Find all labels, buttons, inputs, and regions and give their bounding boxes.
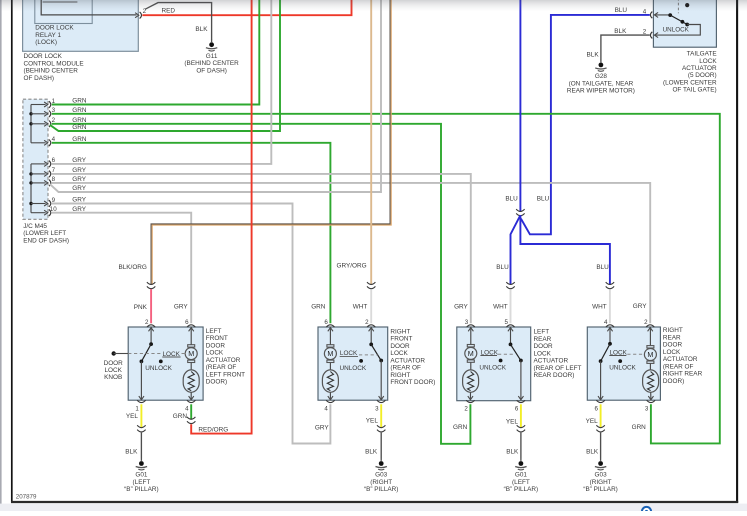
wire GRY branch up at x=379: [50, 0, 381, 192]
svg-text:(5 DOOR): (5 DOOR): [688, 72, 717, 79]
wire GRY pin7 to left rear actuator pin3: [52, 174, 471, 323]
svg-text:PNK: PNK: [134, 304, 148, 311]
svg-text:4: 4: [324, 405, 328, 412]
ground G01 (left B pillar, rear): [504, 459, 538, 494]
J/C M45 pin 10: [31, 206, 57, 216]
svg-text:(REAR OF: (REAR OF: [390, 365, 421, 372]
svg-text:(LEFT: (LEFT: [133, 479, 151, 486]
svg-text:RIGHT: RIGHT: [390, 372, 410, 379]
door lock control module label: [24, 53, 84, 82]
svg-text:GRN: GRN: [632, 424, 647, 431]
J/C M45 pin 6: [31, 157, 56, 167]
right front switch: [359, 327, 383, 399]
connector YEL to BLK: [377, 425, 385, 432]
svg-text:(REAR OF: (REAR OF: [663, 363, 694, 370]
svg-text:GRY: GRY: [72, 206, 86, 213]
svg-text:2: 2: [464, 405, 468, 412]
svg-text:OF TAIL GATE): OF TAIL GATE): [672, 87, 716, 94]
svg-text:ACTUATOR: ACTUATOR: [206, 357, 241, 364]
svg-text:YEL: YEL: [506, 418, 519, 425]
wire BLK to G03: [380, 433, 382, 459]
svg-text:GRN: GRN: [72, 124, 87, 131]
svg-text:GRN: GRN: [72, 107, 87, 114]
svg-text:G01: G01: [515, 472, 528, 479]
tailgate switch dashed line + node: [678, 0, 689, 13]
svg-text:(LEFT: (LEFT: [512, 479, 530, 486]
left front actuator label: [206, 328, 245, 386]
left rear actuator label: [534, 329, 582, 380]
svg-text:207879: 207879: [16, 493, 37, 500]
connector BLU to WHT (right rear): [606, 282, 614, 289]
svg-text:DOOR: DOOR: [663, 342, 683, 349]
right rear resistor: [643, 370, 659, 392]
svg-text:GRY/ORG: GRY/ORG: [337, 263, 367, 270]
svg-text:GRY: GRY: [454, 304, 468, 311]
svg-text:G01: G01: [135, 472, 148, 479]
wire BLK/ORG from top to left front actuator pin2: [151, 0, 391, 285]
svg-text:UNLOCK: UNLOCK: [340, 365, 367, 372]
svg-text:M: M: [327, 349, 333, 358]
svg-text:ACTUATOR: ACTUATOR: [390, 357, 425, 364]
left rear resistor: [463, 370, 479, 392]
ground G03 (right B pillar, rear): [583, 459, 617, 494]
wire YEL right rear pin6: [600, 404, 602, 428]
relay output wire to pin 2: [41, 0, 136, 15]
svg-text:RELAY 1: RELAY 1: [35, 32, 61, 39]
svg-text:CONTROL MODULE: CONTROL MODULE: [24, 60, 84, 67]
svg-text:(ON TAILGATE, NEAR: (ON TAILGATE, NEAR: [569, 80, 634, 87]
help icon bottom: [642, 507, 651, 516]
svg-text:LEFT: LEFT: [534, 329, 550, 336]
svg-text:GRN: GRN: [72, 98, 87, 105]
right front pin 4 (bottom): [324, 396, 334, 412]
svg-text:4: 4: [604, 319, 608, 326]
J/C M45 label: [23, 223, 69, 244]
svg-text:6: 6: [595, 405, 599, 412]
wire GRN branch up at x=280: [50, 0, 280, 131]
left rear pin 3 (top): [465, 319, 475, 331]
svg-text:OF DASH): OF DASH): [196, 67, 227, 74]
right rear pin 4 (top): [604, 319, 614, 331]
wire GRY pin9 to right front actuator pin4: [52, 204, 331, 444]
svg-text:M: M: [468, 349, 474, 358]
svg-text:3: 3: [375, 405, 379, 412]
right front actuator label: [390, 328, 435, 386]
svg-text:2: 2: [145, 319, 149, 326]
right rear pin 6 (bottom): [595, 396, 605, 412]
svg-text:GRN: GRN: [72, 136, 87, 143]
svg-text:TAILGATE: TAILGATE: [687, 51, 717, 58]
connector BLK/ORG to PNK: [147, 282, 155, 289]
left front pin 1 (bottom): [135, 396, 145, 412]
svg-text:ACTUATOR: ACTUATOR: [534, 358, 569, 365]
svg-text:WHT: WHT: [353, 304, 368, 311]
page right border: [736, 0, 738, 503]
J/C M45 pin 8: [31, 176, 56, 186]
svg-text:DOOR: DOOR: [206, 342, 226, 349]
wire YEL right front pin3: [380, 404, 382, 428]
wire GRY pin8 to right rear actuator pin2: [52, 183, 650, 323]
svg-text:3: 3: [645, 405, 649, 412]
svg-text:FRONT: FRONT: [390, 336, 412, 343]
connector GRY/ORG to WHT: [367, 282, 375, 289]
left rear pin 2 (bottom): [464, 396, 474, 412]
svg-text:BLK/ORG: BLK/ORG: [118, 264, 146, 271]
svg-text:GRY: GRY: [72, 185, 86, 192]
relay internal cut line: [43, 1, 78, 3]
svg-text:2: 2: [644, 319, 648, 326]
svg-text:UNLOCK: UNLOCK: [479, 365, 506, 372]
connector YEL to BLK: [137, 425, 145, 432]
connector BLU junction: [516, 209, 524, 216]
svg-text:GRN: GRN: [72, 117, 87, 124]
ground G03 (right B pillar): [364, 459, 398, 494]
svg-text:BLK: BLK: [614, 28, 627, 35]
left rear switch: [499, 327, 523, 399]
svg-text:BLK: BLK: [195, 26, 208, 33]
page left border: [1, 0, 12, 511]
right front door lock actuator box: [318, 327, 388, 400]
wire YEL left rear pin6: [520, 404, 522, 428]
tailgate switch: [654, 13, 700, 35]
svg-text:J/C M45: J/C M45: [23, 223, 47, 230]
wire RED/ORG loop up from left front pin4: [191, 0, 251, 434]
door lock control module box: [23, 0, 139, 51]
tailgate lock actuator box: [653, 0, 716, 47]
svg-text:BLK: BLK: [586, 449, 599, 456]
right front pin 3 (bottom): [375, 396, 385, 412]
svg-text:1: 1: [135, 405, 139, 412]
ground G01 (left B pillar): [124, 459, 158, 494]
right front resistor: [322, 370, 338, 392]
svg-text:GRY: GRY: [633, 303, 647, 310]
svg-text:(BEHIND CENTER: (BEHIND CENTER: [184, 60, 239, 67]
right rear pin 3 (bottom): [645, 396, 655, 412]
svg-text:UNLOCK: UNLOCK: [609, 364, 636, 371]
tailgate pin 4: [643, 8, 658, 18]
svg-text:WHT: WHT: [592, 304, 607, 311]
right rear pin 2 (top): [644, 319, 654, 331]
svg-text:(REAR OF LEFT: (REAR OF LEFT: [534, 365, 582, 372]
left front resistor: [183, 370, 199, 392]
wire BLK to G03: [600, 433, 602, 459]
door lock relay 1 label: [35, 25, 74, 46]
svg-text:GRY: GRY: [315, 424, 329, 431]
svg-text:GRN: GRN: [173, 413, 188, 420]
svg-text:DOOR): DOOR): [206, 379, 227, 386]
J/C M45 pin 3: [31, 107, 56, 117]
svg-text:BLU: BLU: [537, 196, 550, 203]
door lock relay 1 box: [35, 0, 92, 24]
right front motor M: [324, 327, 336, 370]
wire GRN left front pin4: [190, 404, 192, 419]
svg-text:DOOR: DOOR: [104, 360, 124, 367]
right rear door lock actuator box: [587, 327, 660, 400]
connector YEL to BLK: [596, 425, 604, 432]
wire GRN pin1 up at x=259: [52, 0, 259, 105]
svg-text:DOOR): DOOR): [663, 378, 684, 385]
wire GRY pin6 up at x=271: [52, 0, 271, 164]
tailgate pin 2: [643, 29, 658, 39]
door lock knob label: [104, 360, 124, 381]
wire PNK to pin2: [150, 289, 152, 323]
svg-text:GRY: GRY: [72, 176, 86, 183]
svg-text:6: 6: [324, 319, 328, 326]
svg-text:M: M: [188, 349, 194, 358]
svg-text:(RIGHT: (RIGHT: [370, 479, 392, 486]
left front motor M: [185, 327, 197, 370]
right rear motor M: [644, 327, 656, 370]
svg-text:GRN: GRN: [311, 304, 326, 311]
svg-text:OF DASH): OF DASH): [24, 75, 55, 82]
svg-text:4: 4: [185, 405, 189, 412]
wire BLU to right rear pin4: [520, 215, 610, 284]
svg-text:REAR WIPER MOTOR): REAR WIPER MOTOR): [567, 88, 635, 95]
J/C M45 pin 9: [31, 197, 56, 207]
svg-text:LOCK: LOCK: [390, 350, 408, 357]
wire GRY/ORG from top: [370, 0, 372, 285]
svg-text:2: 2: [365, 319, 369, 326]
svg-text:DOOR LOCK: DOOR LOCK: [35, 25, 74, 32]
door lock knob line: [112, 351, 161, 355]
wire GRN pin2 to left rear actuator pin2: [52, 124, 471, 444]
svg-text:G11: G11: [206, 53, 218, 60]
svg-text:END OF DASH): END OF DASH): [23, 237, 69, 244]
wire BLK to G01: [140, 433, 142, 459]
right rear actuator label: [663, 327, 703, 385]
page bottom border: [0, 502, 747, 511]
svg-text:DOOR LOCK: DOOR LOCK: [24, 53, 63, 60]
svg-text:3: 3: [465, 319, 469, 326]
svg-text:BLK: BLK: [365, 449, 378, 456]
svg-text:LOCK: LOCK: [206, 350, 224, 357]
svg-text:G03: G03: [595, 472, 608, 479]
right front pin 2 (top): [365, 319, 375, 331]
svg-text:BLU: BLU: [505, 196, 518, 203]
svg-text:REAR DOOR): REAR DOOR): [534, 372, 575, 379]
svg-text:“B” PILLAR): “B” PILLAR): [124, 486, 158, 493]
svg-text:BLK: BLK: [587, 51, 600, 58]
svg-text:KNOB: KNOB: [104, 374, 122, 381]
J/C grey bus: [30, 164, 32, 213]
wire YEL left front pin1: [140, 404, 142, 428]
svg-text:FRONT: FRONT: [206, 335, 228, 342]
svg-text:YEL: YEL: [126, 413, 139, 420]
ground G28: [567, 60, 635, 95]
left front switch: [140, 327, 163, 399]
svg-text:(RIGHT: (RIGHT: [590, 479, 612, 486]
svg-text:GRN: GRN: [453, 424, 468, 431]
J/C M45 pin 2: [31, 117, 56, 127]
svg-text:LOCK: LOCK: [699, 58, 717, 65]
svg-text:6: 6: [185, 319, 189, 326]
wire BLU to left rear pin5: [511, 215, 521, 284]
svg-text:UNLOCK: UNLOCK: [145, 365, 172, 372]
svg-text:“B” PILLAR): “B” PILLAR): [364, 486, 398, 493]
tailgate actuator label: [663, 51, 717, 94]
left rear door lock actuator box: [457, 327, 531, 401]
svg-text:M: M: [647, 350, 653, 359]
svg-text:YEL: YEL: [586, 418, 599, 425]
connector YEL to BLK: [517, 425, 525, 432]
J/C M45 junction connector box: [23, 99, 48, 219]
label LOCK (right rear): [609, 349, 644, 356]
svg-text:ACTUATOR: ACTUATOR: [682, 65, 717, 72]
J/C M45 pin 1: [31, 98, 56, 108]
svg-text:BLU: BLU: [596, 264, 609, 271]
svg-text:LOCK: LOCK: [663, 349, 681, 356]
svg-text:DOOR: DOOR: [390, 343, 410, 350]
wire BLU main from top: [519, 0, 521, 212]
svg-text:LEFT FRONT: LEFT FRONT: [206, 371, 245, 378]
wire WHT to right rear pin4: [609, 289, 611, 323]
ground G11: [184, 40, 239, 75]
svg-text:FRONT DOOR): FRONT DOOR): [390, 379, 435, 386]
svg-text:ACTUATOR: ACTUATOR: [663, 356, 698, 363]
label LOCK (right front): [340, 350, 378, 357]
label LOCK (left front): [162, 351, 185, 358]
svg-text:“B” PILLAR): “B” PILLAR): [504, 486, 538, 493]
left front pin 6 (top): [185, 319, 195, 331]
svg-text:GRY: GRY: [174, 304, 188, 311]
right rear switch: [599, 327, 622, 399]
svg-text:G03: G03: [375, 472, 388, 479]
wire GRN pin3 long to right rear actuator pin3: [52, 114, 720, 444]
left rear pin 6 (bottom): [515, 396, 525, 412]
wire BLK tailgate pin2 to G28: [601, 35, 650, 60]
left rear pin 5 (top): [504, 319, 514, 331]
svg-text:G28: G28: [595, 73, 608, 80]
left rear motor M: [465, 327, 477, 370]
J/C M45 pin 7: [31, 167, 56, 177]
svg-text:BLU: BLU: [496, 264, 509, 271]
wire BLK to ground G11: [145, 3, 211, 40]
label LOCK (left rear): [480, 349, 513, 356]
svg-text:6: 6: [515, 405, 519, 412]
svg-text:(REAR OF: (REAR OF: [206, 364, 237, 371]
svg-text:GRY: GRY: [72, 157, 86, 164]
svg-text:5: 5: [504, 319, 508, 326]
left front pin 2 (top): [145, 319, 155, 331]
J/C bus junction dots: [29, 112, 32, 205]
wire RED from module pin 2 up at x=351: [142, 0, 351, 15]
svg-text:WHT: WHT: [493, 304, 508, 311]
wire BLU tailgate pin4 to blue junction: [521, 15, 650, 234]
svg-text:REAR: REAR: [663, 334, 681, 341]
svg-text:RIGHT REAR: RIGHT REAR: [663, 371, 703, 378]
svg-text:LOCK: LOCK: [104, 367, 122, 374]
left front door lock actuator box: [128, 327, 203, 400]
wire GRY pin10 to left front actuator pin6: [52, 213, 191, 324]
module pin 2: [135, 8, 147, 19]
svg-text:DOOR: DOOR: [534, 343, 554, 350]
J/C green bus: [30, 105, 32, 143]
svg-text:REAR: REAR: [534, 336, 552, 343]
connector BLU to WHT (left rear): [506, 282, 514, 289]
wire GRN pin4 to right front actuator pin6: [52, 143, 331, 323]
svg-text:LOCK: LOCK: [534, 350, 552, 357]
svg-text:BLK: BLK: [125, 449, 138, 456]
svg-text:RED/ORG: RED/ORG: [198, 427, 228, 434]
svg-text:(LOWER LEFT: (LOWER LEFT: [23, 230, 66, 237]
J/C M45 pin 4: [31, 136, 56, 146]
connector GRN to RED/ORG: [187, 417, 195, 424]
svg-text:BLK: BLK: [506, 449, 519, 456]
wire WHT to right front pin2: [370, 289, 372, 323]
svg-text:YEL: YEL: [366, 418, 379, 425]
wire BLK to G01: [520, 433, 522, 459]
wire WHT to left rear pin5: [510, 289, 512, 323]
svg-text:UNLOCK: UNLOCK: [663, 27, 690, 34]
right front pin 6 (top): [324, 319, 334, 331]
svg-text:RIGHT: RIGHT: [663, 327, 683, 334]
svg-text:LEFT: LEFT: [206, 328, 222, 335]
svg-text:(BEHIND CENTER: (BEHIND CENTER: [24, 68, 79, 75]
svg-text:(LOCK): (LOCK): [35, 39, 57, 46]
svg-text:“B” PILLAR): “B” PILLAR): [583, 486, 617, 493]
svg-text:GRY: GRY: [72, 167, 86, 174]
svg-text:RIGHT: RIGHT: [390, 328, 410, 335]
svg-text:(LOWER CENTER: (LOWER CENTER: [663, 79, 717, 86]
svg-text:GRY: GRY: [72, 197, 86, 204]
left front pin 4 (bottom): [185, 396, 195, 412]
